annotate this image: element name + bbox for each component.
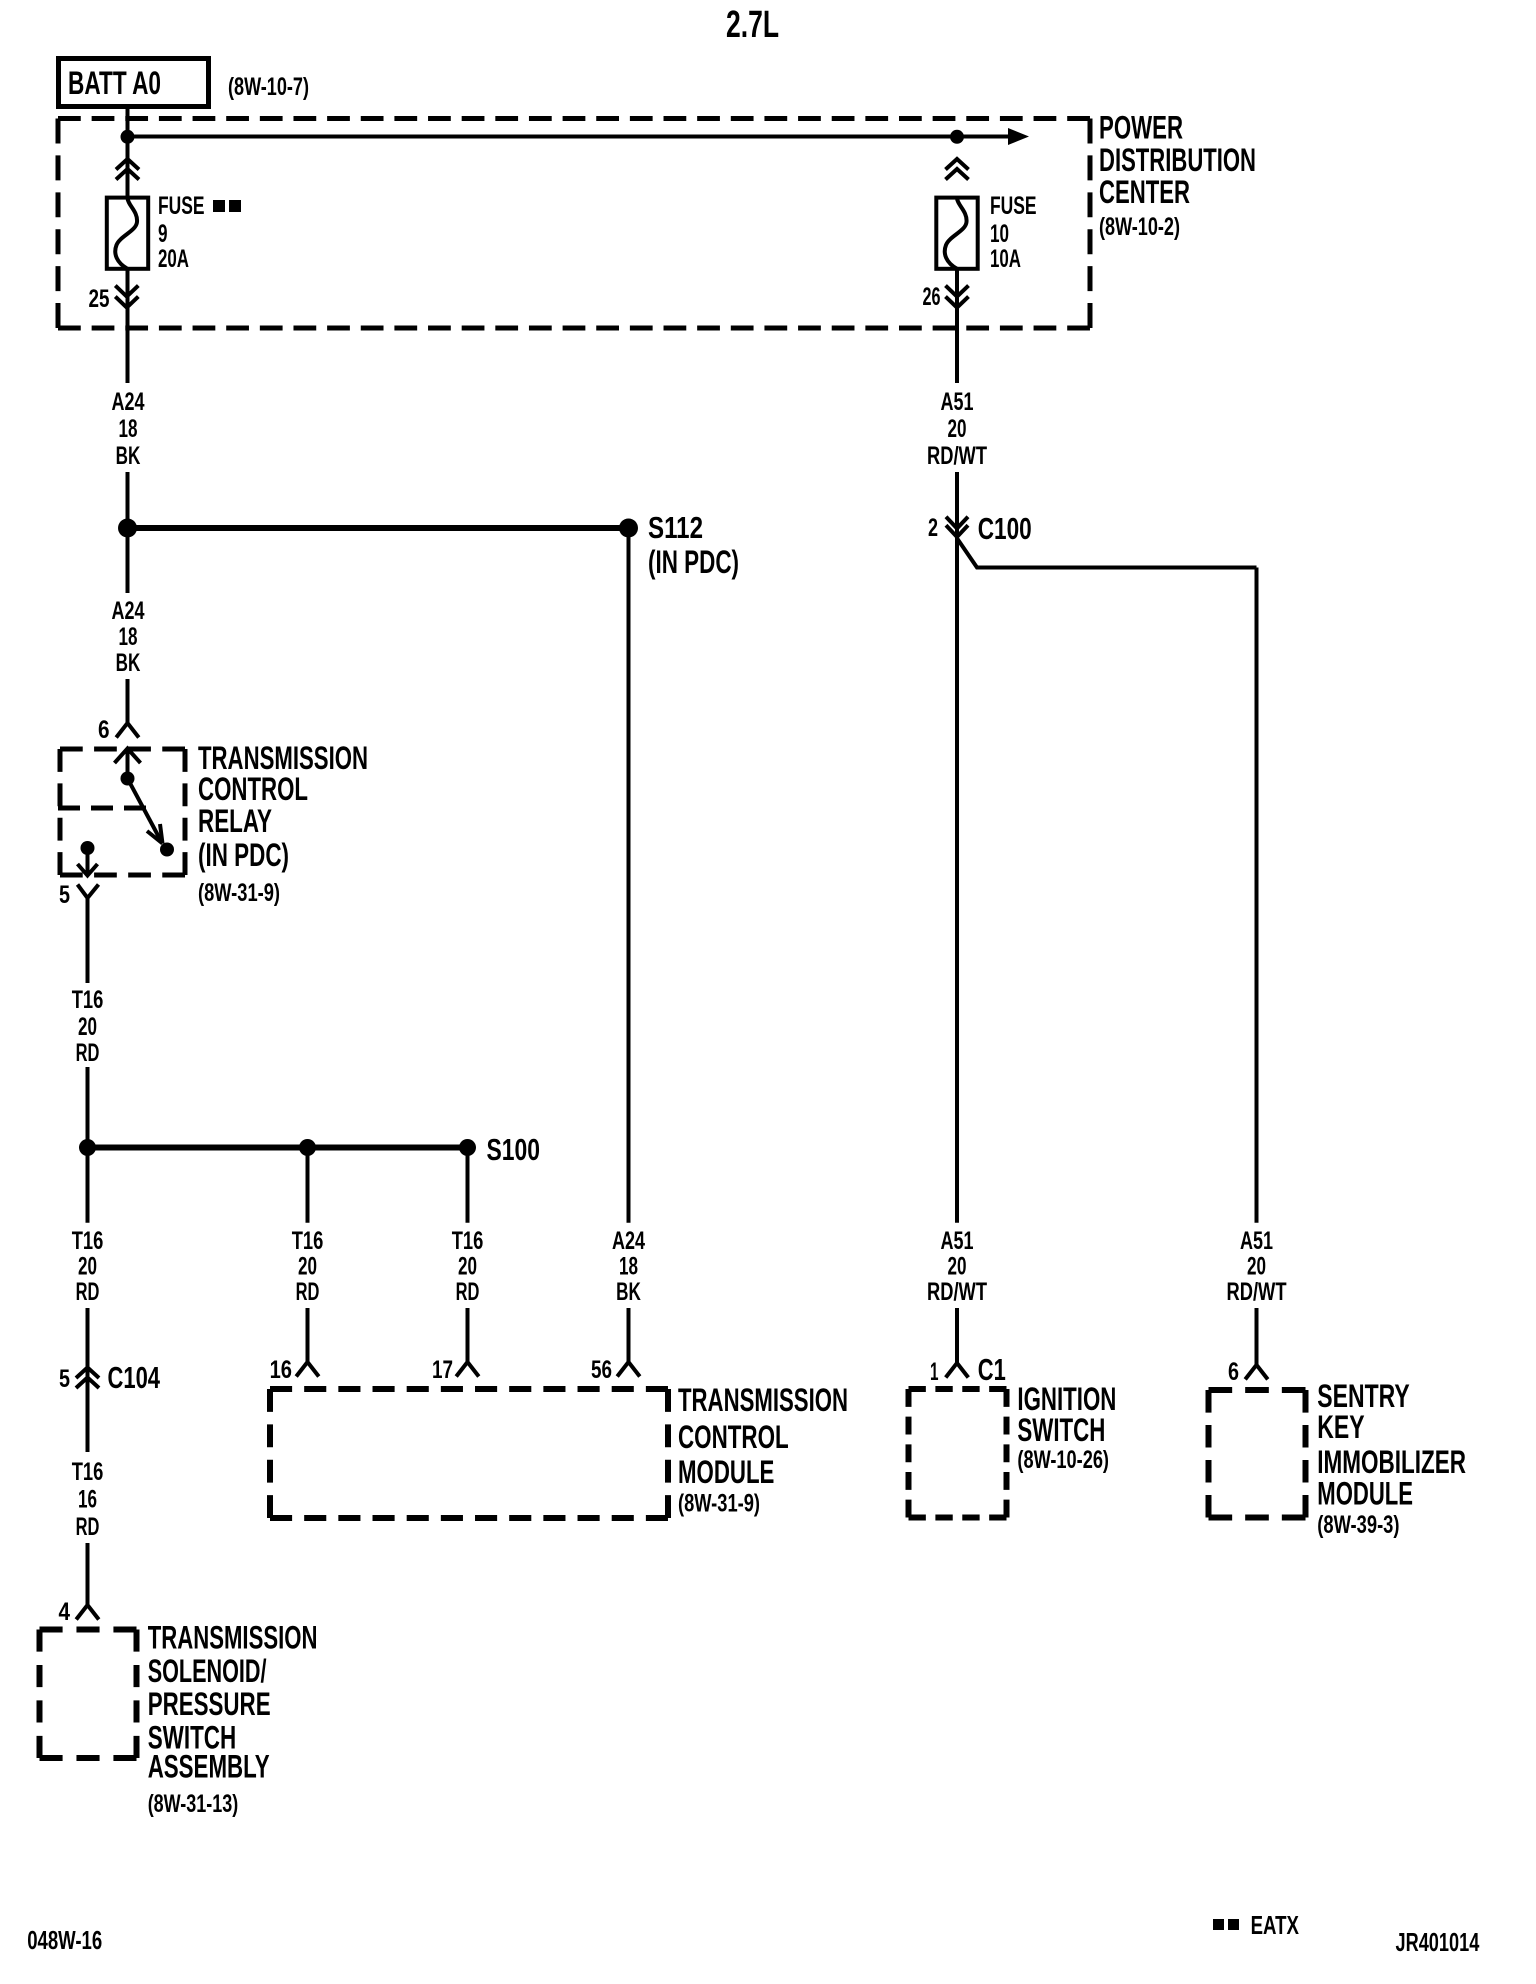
svg-text:CONTROL: CONTROL — [198, 771, 308, 807]
relay NC branch dot — [81, 841, 95, 855]
svg-text:ASSEMBLY: ASSEMBLY — [148, 1749, 270, 1785]
svg-text:S112: S112 — [648, 510, 703, 545]
branch to sentry key module — [958, 539, 1257, 568]
node junction at fuse 10 — [950, 130, 964, 144]
pin 16 — [296, 1362, 319, 1377]
wire pin 5 down — [86, 898, 90, 983]
svg-text:25: 25 — [89, 285, 110, 313]
svg-text:A51: A51 — [941, 1227, 974, 1255]
pin 25 connector chevrons — [115, 286, 138, 297]
svg-text:TRANSMISSION: TRANSMISSION — [678, 1382, 848, 1418]
svg-text:EATX: EATX — [1251, 1910, 1300, 1940]
svg-text:S100: S100 — [487, 1132, 541, 1167]
svg-text:PRESSURE: PRESSURE — [148, 1686, 271, 1722]
svg-text:T16: T16 — [72, 1227, 104, 1255]
svg-text:JR401014: JR401014 — [1396, 1927, 1480, 1957]
svg-text:IMMOBILIZER: IMMOBILIZER — [1317, 1444, 1466, 1480]
svg-text:BATT A0: BATT A0 — [68, 65, 161, 101]
svg-text:A51: A51 — [1240, 1227, 1273, 1255]
power distribution center dashed box — [58, 116, 1090, 121]
svg-text:2.7L: 2.7L — [726, 4, 779, 46]
svg-text:20: 20 — [1247, 1253, 1266, 1281]
svg-text:RD: RD — [296, 1278, 320, 1306]
relay blade — [128, 779, 162, 842]
svg-text:T16: T16 — [292, 1227, 324, 1255]
relay pivot dot — [121, 772, 135, 786]
splice S100 bus — [88, 1145, 468, 1151]
svg-text:BK: BK — [616, 1278, 641, 1306]
svg-text:20: 20 — [298, 1253, 317, 1281]
svg-text:20A: 20A — [158, 245, 189, 273]
svg-text:20: 20 — [458, 1253, 477, 1281]
svg-text:POWER: POWER — [1099, 110, 1183, 146]
wire C100 down to ignition switch — [955, 528, 959, 1222]
svg-text:16: 16 — [78, 1486, 97, 1514]
svg-text:BK: BK — [116, 442, 141, 470]
svg-text:A24: A24 — [612, 1227, 645, 1255]
connector C100 chevrons — [946, 517, 968, 529]
svg-text:17: 17 — [432, 1356, 453, 1384]
svg-text:10A: 10A — [990, 245, 1021, 273]
svg-text:5: 5 — [59, 881, 70, 909]
node S100 dot 2 — [299, 1139, 316, 1156]
svg-text:SOLENOID/: SOLENOID/ — [148, 1653, 267, 1689]
relay internal divider — [58, 806, 146, 811]
svg-text:(8W-31-9): (8W-31-9) — [198, 879, 280, 907]
wire through C104 — [86, 1308, 90, 1452]
svg-text:RD: RD — [76, 1039, 100, 1067]
pin 5 connector — [78, 885, 99, 899]
node S100 dot 1 — [79, 1139, 96, 1156]
svg-text:T16: T16 — [72, 986, 104, 1014]
svg-text:C104: C104 — [108, 1360, 161, 1395]
svg-text:KEY: KEY — [1317, 1409, 1364, 1445]
svg-text:CENTER: CENTER — [1099, 174, 1190, 210]
svg-text:DISTRIBUTION: DISTRIBUTION — [1099, 142, 1256, 178]
arrowhead — [1008, 128, 1029, 145]
pin 56 — [617, 1362, 640, 1377]
svg-text:CONTROL: CONTROL — [678, 1419, 789, 1455]
pin 1 — [946, 1363, 969, 1378]
svg-text:18: 18 — [619, 1253, 638, 1281]
svg-text:(8W-39-3): (8W-39-3) — [1317, 1511, 1399, 1539]
wire S100 to TCM pin 17 — [466, 1148, 470, 1223]
wire A24 from label to splice S112 — [126, 472, 130, 528]
svg-text:RD: RD — [76, 1513, 100, 1541]
svg-text:(8W-31-13): (8W-31-13) — [148, 1790, 239, 1818]
node S112 left dot — [118, 519, 137, 538]
wire S112 to TCM pin 56 — [627, 528, 631, 1223]
svg-text:TRANSMISSION: TRANSMISSION — [148, 1620, 318, 1656]
svg-text:18: 18 — [119, 415, 138, 443]
wire to splice S100 — [86, 1067, 90, 1148]
relay output arrow down — [86, 848, 90, 873]
svg-text:6: 6 — [98, 716, 110, 744]
svg-text:RD: RD — [456, 1278, 480, 1306]
svg-text:T16: T16 — [72, 1458, 104, 1486]
node junction at fuse 9 — [121, 130, 135, 144]
fuse 9 — [107, 198, 148, 269]
transmission control relay dashed box — [60, 747, 185, 752]
svg-text:6: 6 — [1228, 1358, 1239, 1386]
svg-text:FUSE: FUSE — [158, 192, 205, 220]
svg-text:4: 4 — [59, 1598, 71, 1626]
svg-text:A51: A51 — [941, 388, 974, 416]
wire below S112 on left — [126, 528, 130, 593]
wire to solenoid pin 4 — [86, 1543, 90, 1605]
svg-text:048W-16: 048W-16 — [27, 1925, 102, 1955]
svg-text:1: 1 — [930, 1358, 939, 1386]
svg-text:18: 18 — [119, 623, 138, 651]
pin 26 connector chevrons — [946, 286, 969, 297]
svg-text:SWITCH: SWITCH — [1017, 1412, 1105, 1448]
svg-text:(8W-31-9): (8W-31-9) — [678, 1490, 760, 1518]
fuse 9 entry chevrons — [116, 159, 139, 170]
svg-text:RD/WT: RD/WT — [927, 442, 987, 470]
svg-text:5: 5 — [59, 1365, 70, 1393]
svg-text:MODULE: MODULE — [1317, 1476, 1413, 1512]
svg-text:16: 16 — [270, 1356, 292, 1384]
ignition switch dashed box — [909, 1386, 1007, 1392]
svg-text:RD/WT: RD/WT — [927, 1278, 987, 1306]
wire to relay pin 6 — [126, 679, 130, 723]
svg-text:(IN PDC): (IN PDC) — [648, 544, 739, 580]
svg-text:RD/WT: RD/WT — [1227, 1278, 1287, 1306]
svg-text:20: 20 — [78, 1253, 97, 1281]
svg-text:FUSE: FUSE — [990, 192, 1037, 220]
svg-text:2: 2 — [928, 514, 938, 542]
svg-text:(8W-10-2): (8W-10-2) — [1099, 213, 1180, 241]
wire S100 to TCM pin 16 — [306, 1148, 310, 1223]
svg-text:26: 26 — [923, 283, 941, 311]
transmission control module dashed box — [270, 1386, 668, 1392]
relay coil arrow up — [126, 748, 130, 778]
node S112 right dot — [619, 519, 638, 538]
wire from BATT A0 down into PDC — [126, 107, 130, 198]
wire fuse 10 to pin 26 — [955, 269, 959, 383]
svg-text:56: 56 — [591, 1356, 612, 1384]
svg-text:10: 10 — [990, 220, 1009, 248]
wire S100 to C104 column — [86, 1148, 90, 1223]
svg-text:T16: T16 — [452, 1227, 484, 1255]
svg-text:MODULE: MODULE — [678, 1454, 774, 1490]
transmission solenoid/pressure switch assembly dashed box — [40, 1627, 137, 1633]
svg-text:20: 20 — [948, 415, 967, 443]
relay NO contact dot — [160, 843, 174, 857]
bus wire across PDC with arrow — [128, 135, 1023, 139]
node S100 dot 3 — [459, 1139, 476, 1156]
wire fuse 10 to C100 — [955, 472, 959, 537]
svg-text:(8W-10-26): (8W-10-26) — [1017, 1446, 1109, 1474]
svg-text:A24: A24 — [112, 388, 145, 416]
pin 6 — [116, 723, 139, 738]
connector C104 chevrons — [76, 1368, 99, 1379]
BATT A0 feed box — [59, 59, 209, 107]
svg-text:C100: C100 — [978, 511, 1032, 546]
svg-text:A24: A24 — [112, 597, 145, 625]
svg-text:BK: BK — [116, 649, 141, 677]
pin 6 sentry — [1245, 1365, 1268, 1380]
svg-text:20: 20 — [78, 1013, 97, 1041]
svg-text:9: 9 — [158, 220, 168, 248]
sentry key immobilizer module dashed box — [1209, 1387, 1306, 1393]
wire fuse 9 to pin 25 — [126, 269, 130, 383]
footer EATX legend — [1213, 1919, 1224, 1930]
svg-text:20: 20 — [948, 1253, 967, 1281]
svg-text:(8W-10-7): (8W-10-7) — [228, 73, 309, 101]
svg-text:(IN PDC): (IN PDC) — [198, 837, 289, 873]
pin 17 — [456, 1362, 479, 1377]
pin 4 — [76, 1605, 99, 1620]
fuse 10 entry chevrons — [946, 159, 969, 170]
svg-text:C1: C1 — [978, 1352, 1006, 1387]
fuse 10 — [936, 198, 977, 269]
svg-text:RD: RD — [76, 1278, 100, 1306]
svg-text:RELAY: RELAY — [198, 803, 272, 839]
splice S112 bus — [128, 525, 629, 531]
